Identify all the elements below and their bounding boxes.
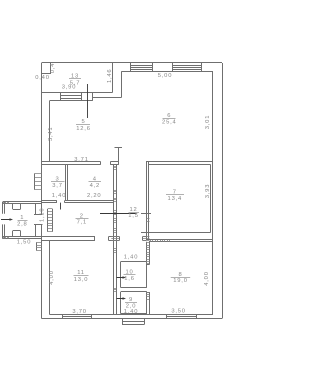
svg-text:13: 13 <box>71 74 79 80</box>
svg-text:1,46: 1,46 <box>107 69 113 83</box>
svg-text:4,00: 4,00 <box>204 271 210 285</box>
svg-text:1,6: 1,6 <box>124 276 134 282</box>
svg-text:4,2: 4,2 <box>90 183 100 189</box>
svg-text:9: 9 <box>129 297 133 303</box>
svg-text:1,40: 1,40 <box>124 309 138 315</box>
svg-text:2,20: 2,20 <box>87 193 101 199</box>
svg-text:13,0: 13,0 <box>74 277 88 283</box>
svg-text:3: 3 <box>55 176 59 182</box>
svg-text:2: 2 <box>80 213 84 219</box>
svg-text:1,50: 1,50 <box>17 240 31 246</box>
svg-text:19,0: 19,0 <box>173 278 187 284</box>
svg-text:6: 6 <box>167 113 171 119</box>
svg-text:7,1: 7,1 <box>77 220 87 226</box>
svg-text:3,71: 3,71 <box>74 157 88 163</box>
svg-text:1,40: 1,40 <box>52 193 66 199</box>
svg-text:25,4: 25,4 <box>162 120 176 126</box>
svg-text:5,00: 5,00 <box>158 73 172 79</box>
svg-text:3,7: 3,7 <box>52 183 62 189</box>
svg-text:4,00: 4,00 <box>49 270 55 284</box>
svg-text:4: 4 <box>93 176 97 182</box>
svg-text:3,41: 3,41 <box>48 127 54 141</box>
svg-text:3,93: 3,93 <box>205 184 211 198</box>
svg-text:13,4: 13,4 <box>168 196 182 202</box>
svg-text:2,8: 2,8 <box>17 221 27 227</box>
svg-text:0,4: 0,4 <box>50 63 56 73</box>
svg-text:0,40: 0,40 <box>35 75 49 81</box>
svg-text:1,10: 1,10 <box>39 208 45 222</box>
svg-text:11: 11 <box>77 270 85 276</box>
svg-text:3,70: 3,70 <box>72 309 86 315</box>
svg-text:3,01: 3,01 <box>205 115 211 129</box>
svg-text:1,40: 1,40 <box>124 254 138 260</box>
svg-text:7: 7 <box>173 189 177 195</box>
svg-text:3,50: 3,50 <box>171 308 185 314</box>
svg-text:3,90: 3,90 <box>62 85 76 91</box>
svg-text:12,6: 12,6 <box>76 126 90 132</box>
svg-text:5: 5 <box>81 119 85 125</box>
svg-text:10: 10 <box>125 269 133 275</box>
svg-text:1: 1 <box>20 215 24 221</box>
svg-text:1,5: 1,5 <box>128 213 138 219</box>
